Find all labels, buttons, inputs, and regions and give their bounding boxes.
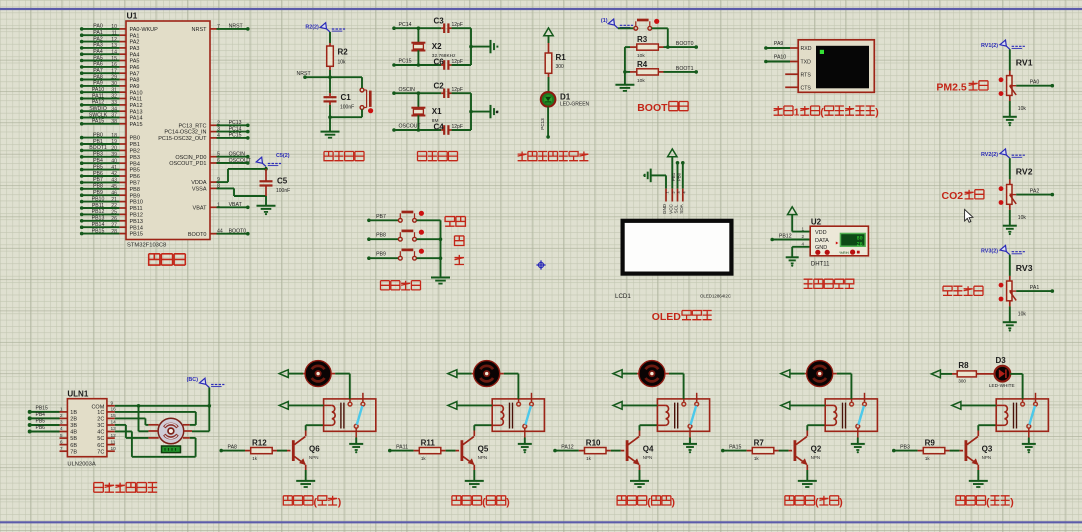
svg-text:PB1: PB1 bbox=[93, 139, 103, 145]
svg-text:PA1: PA1 bbox=[93, 30, 103, 36]
wire OSCOUT bbox=[392, 128, 396, 132]
wire PB4 to U1 pin 40 bbox=[80, 161, 84, 165]
svg-text:PC13: PC13 bbox=[540, 118, 545, 130]
svg-text:): ) bbox=[338, 496, 342, 508]
svg-text:OLED12864I2C: OLED12864I2C bbox=[700, 293, 731, 298]
svg-text:PA1: PA1 bbox=[130, 33, 140, 39]
svg-text:X1: X1 bbox=[432, 107, 442, 116]
svg-text:5C: 5C bbox=[97, 436, 104, 442]
wire R11 to base bbox=[446, 450, 456, 452]
sensor U2 DHT11 body bbox=[810, 226, 868, 256]
wire R8 to D3 bbox=[976, 373, 994, 375]
wire PA5 to U1 pin 15 bbox=[80, 59, 84, 63]
transistor Q5 (NPN) bbox=[461, 440, 464, 461]
svg-text:12pF: 12pF bbox=[452, 22, 463, 28]
svg-text:R4: R4 bbox=[637, 60, 648, 69]
svg-text:7: 7 bbox=[60, 446, 63, 452]
power flag C5(2) bbox=[263, 163, 267, 166]
svg-text:19: 19 bbox=[111, 139, 117, 145]
svg-text:DHT11: DHT11 bbox=[811, 261, 830, 267]
wire OLED SDA bbox=[681, 161, 685, 165]
svg-text:OSCOUT: OSCOUT bbox=[229, 158, 252, 164]
wire PB5 to ULN 3B bbox=[28, 423, 32, 427]
svg-text:12pF: 12pF bbox=[452, 87, 463, 93]
svg-text:PB12: PB12 bbox=[779, 233, 792, 239]
relay RL bbox=[996, 399, 1048, 431]
wire button bus bbox=[440, 220, 442, 277]
svg-text:1k: 1k bbox=[754, 456, 760, 461]
power arrow DHT bbox=[788, 207, 797, 215]
wire R9 to base bbox=[950, 450, 960, 452]
wire GND bbox=[792, 246, 810, 248]
wire PA8 to U1 pin 29 bbox=[80, 78, 84, 82]
svg-text:PA11: PA11 bbox=[92, 93, 104, 99]
svg-text:5: 5 bbox=[60, 433, 63, 439]
svg-text:PB3: PB3 bbox=[130, 155, 140, 161]
power arrow OLED VCC bbox=[668, 149, 677, 157]
wire PB7 to button bbox=[367, 219, 371, 223]
svg-text:R2: R2 bbox=[338, 48, 349, 57]
svg-text:PB0: PB0 bbox=[93, 132, 103, 138]
svg-text:26: 26 bbox=[111, 216, 117, 222]
relay RL bbox=[657, 399, 709, 431]
wire button PB9 to bus bbox=[416, 257, 440, 259]
wire PA9 to U1 pin 30 bbox=[80, 84, 84, 88]
svg-text:BOOT0: BOOT0 bbox=[676, 41, 694, 47]
svg-text:PB6: PB6 bbox=[36, 425, 46, 431]
wire PB11 to U1 pin 22 bbox=[80, 206, 84, 210]
wire RV2 wiper to PA2 bbox=[1016, 194, 1052, 196]
svg-text:10k: 10k bbox=[1018, 106, 1027, 112]
svg-text:NPN: NPN bbox=[309, 455, 319, 460]
svg-text:PA5: PA5 bbox=[130, 59, 140, 65]
svg-text:PB12: PB12 bbox=[92, 209, 105, 215]
svg-text:4: 4 bbox=[60, 426, 63, 432]
svg-text:PC15: PC15 bbox=[229, 133, 242, 139]
svg-text:RV1: RV1 bbox=[1016, 58, 1033, 68]
svg-text:PA9: PA9 bbox=[774, 41, 784, 47]
ground relay bbox=[683, 443, 697, 445]
ground crystal bbox=[490, 40, 492, 53]
capacitor C6 bbox=[443, 60, 445, 70]
node NRST bbox=[303, 75, 307, 79]
svg-text:300: 300 bbox=[958, 379, 966, 384]
svg-text:R1: R1 bbox=[556, 53, 567, 62]
wire motor to relay pole bbox=[665, 373, 669, 375]
svg-text:RV1(2): RV1(2) bbox=[981, 43, 998, 49]
button RESET bbox=[360, 88, 364, 92]
stepper motor bbox=[158, 418, 184, 444]
OLED pin 3 SCL bbox=[677, 189, 679, 202]
power arrow coil bbox=[613, 402, 622, 410]
svg-text:PA15: PA15 bbox=[729, 444, 741, 450]
label main-chip (主芯片) bbox=[149, 254, 160, 265]
svg-text:13: 13 bbox=[111, 43, 117, 49]
pin RTS stub bbox=[785, 73, 798, 75]
svg-text:PA12: PA12 bbox=[130, 103, 143, 109]
svg-text:12: 12 bbox=[111, 37, 117, 43]
resistor R4 bbox=[637, 69, 659, 75]
svg-text:4C: 4C bbox=[97, 430, 104, 436]
label relay (继电器(空调)) bbox=[283, 496, 292, 505]
svg-text:R3: R3 bbox=[637, 35, 648, 44]
svg-text:): ) bbox=[875, 107, 879, 119]
wire collector to coil bbox=[473, 431, 475, 437]
wire motor to relay pole bbox=[833, 373, 837, 375]
wire 2C to motor left-top bbox=[115, 417, 146, 419]
resistor R7 bbox=[752, 448, 774, 454]
potentiometer RV1 bbox=[1009, 71, 1011, 76]
wire VDDA to C5 node bbox=[217, 181, 229, 183]
svg-text:NRST: NRST bbox=[192, 27, 208, 33]
svg-text:PA4: PA4 bbox=[93, 49, 103, 55]
wire PB6 to U1 pin 42 bbox=[80, 174, 84, 178]
svg-text:40: 40 bbox=[111, 158, 117, 164]
power arrow coil bbox=[448, 402, 457, 410]
wire RV3 to ground bbox=[1009, 301, 1011, 307]
svg-text:3: 3 bbox=[60, 420, 63, 426]
svg-text:NPN: NPN bbox=[982, 455, 992, 460]
svg-text:PC13_RTC: PC13_RTC bbox=[178, 123, 206, 129]
svg-text:27: 27 bbox=[111, 222, 117, 228]
power arrow D3 branch bbox=[931, 370, 940, 378]
svg-text:PB11: PB11 bbox=[92, 203, 104, 209]
wire R4 left bbox=[625, 71, 630, 73]
svg-text:10: 10 bbox=[111, 24, 117, 30]
svg-text:PA14: PA14 bbox=[130, 116, 143, 122]
wire PB3 to U1 pin 39 bbox=[80, 155, 84, 159]
capacitor C5 bbox=[265, 169, 267, 181]
label serial-window (串口1窗口（模拟手机端）) bbox=[774, 106, 783, 115]
wire motor to relay pole bbox=[331, 373, 335, 375]
wire SWCLK to U1 pin 37 bbox=[80, 116, 84, 120]
svg-text:R8: R8 bbox=[958, 361, 969, 370]
power flag (BC) bbox=[206, 384, 210, 387]
driver ULN1 body bbox=[67, 399, 107, 457]
svg-text:PA12: PA12 bbox=[92, 100, 104, 106]
power flag RV2(2) bbox=[1006, 155, 1010, 158]
resistor R9 bbox=[923, 448, 945, 454]
resistor R10 bbox=[585, 448, 607, 454]
svg-text:VSSA: VSSA bbox=[192, 187, 207, 193]
svg-text:PA6: PA6 bbox=[130, 65, 140, 71]
power flag D1 bbox=[544, 28, 553, 36]
stray origin dot bbox=[496, 111, 499, 114]
svg-text:PA15: PA15 bbox=[130, 122, 143, 128]
ground Q3 bbox=[969, 480, 988, 482]
svg-text:PB15: PB15 bbox=[130, 232, 143, 238]
svg-text:C3: C3 bbox=[434, 17, 445, 26]
svg-text:6B: 6B bbox=[70, 443, 77, 449]
svg-text:PB7: PB7 bbox=[93, 177, 103, 183]
RV2 adjust dots bbox=[999, 186, 1004, 191]
svg-text:3C: 3C bbox=[97, 423, 104, 429]
svg-text:10k: 10k bbox=[637, 78, 645, 84]
svg-text:BOOT1: BOOT1 bbox=[676, 66, 694, 72]
svg-text:21: 21 bbox=[111, 197, 117, 203]
wire 1C to motor right-top bbox=[115, 411, 196, 413]
svg-text:12pF: 12pF bbox=[452, 124, 463, 130]
wire R7 to base bbox=[779, 450, 789, 452]
svg-text:GND: GND bbox=[662, 203, 667, 214]
power flag RV3(2) bbox=[1006, 252, 1010, 255]
svg-text:2C: 2C bbox=[97, 417, 104, 423]
svg-text:PA5: PA5 bbox=[93, 55, 103, 61]
resistor R2 bbox=[327, 46, 334, 66]
stepper display bbox=[162, 446, 181, 453]
svg-text:10k: 10k bbox=[1018, 215, 1027, 221]
wire R10 to base bbox=[611, 450, 621, 452]
svg-text:RV3(2): RV3(2) bbox=[981, 249, 998, 255]
wire PB12 to DATA bbox=[770, 238, 774, 242]
RV1 adjust dots bbox=[999, 77, 1004, 82]
svg-text:32: 32 bbox=[111, 94, 117, 100]
label 减 bbox=[455, 255, 465, 265]
wire D3 to relay pole bbox=[1010, 373, 1022, 375]
svg-text:7C: 7C bbox=[97, 449, 104, 455]
svg-text:33: 33 bbox=[111, 100, 117, 106]
crystal X1 bbox=[417, 93, 419, 108]
label crystal-circuit (晶振电路) bbox=[418, 152, 427, 161]
button PB7 bbox=[398, 218, 402, 222]
svg-text:PC14: PC14 bbox=[229, 126, 242, 132]
svg-text:PB7: PB7 bbox=[130, 181, 140, 187]
svg-text:PB10: PB10 bbox=[92, 196, 105, 202]
svg-text:VBAT: VBAT bbox=[193, 205, 208, 211]
virtual terminal body bbox=[798, 40, 874, 93]
svg-text:): ) bbox=[506, 496, 510, 508]
wire PA4 to U1 pin 14 bbox=[80, 52, 84, 56]
DHT buttons bbox=[815, 250, 820, 255]
svg-text:30: 30 bbox=[111, 81, 117, 87]
relay RL bbox=[324, 399, 376, 431]
svg-text:18: 18 bbox=[111, 133, 117, 139]
wire emitter to ground bbox=[806, 465, 808, 470]
svg-text:PA2: PA2 bbox=[93, 36, 103, 42]
wire button to R3 node bbox=[652, 27, 668, 29]
svg-text:(: ( bbox=[647, 496, 651, 508]
svg-text:PA11: PA11 bbox=[396, 444, 408, 450]
potentiometer RV2 bbox=[1009, 179, 1011, 184]
svg-text:PB10: PB10 bbox=[130, 200, 143, 206]
svg-text:D1: D1 bbox=[560, 92, 571, 101]
wire relay mover to ground bbox=[689, 438, 691, 444]
wire 3C to motor left-bottom bbox=[115, 424, 126, 426]
svg-text:PB15: PB15 bbox=[36, 406, 48, 412]
svg-text:C2: C2 bbox=[434, 82, 445, 91]
svg-text:6: 6 bbox=[60, 439, 63, 445]
svg-text:U2: U2 bbox=[811, 218, 822, 227]
wire PB15 to U1 pin 28 bbox=[80, 232, 84, 236]
ground RV2 bbox=[1003, 225, 1017, 227]
wire PA15 to U1 pin 38 bbox=[80, 122, 84, 126]
svg-text:PB3: PB3 bbox=[93, 152, 103, 158]
svg-text:PB0: PB0 bbox=[677, 172, 682, 181]
svg-text:1k: 1k bbox=[586, 456, 592, 461]
wire R4 to BOOT1 bbox=[664, 71, 697, 73]
svg-text:NRST: NRST bbox=[297, 71, 312, 77]
wire PB0 to U1 pin 18 bbox=[80, 136, 84, 140]
button PB9 bbox=[398, 256, 402, 260]
wire PA10 to U1 pin 31 bbox=[80, 90, 84, 94]
wire C2 to node bbox=[452, 92, 472, 94]
OLED display LCD1 bbox=[623, 221, 732, 274]
svg-text:34: 34 bbox=[111, 106, 117, 112]
transistor Q4 (NPN) bbox=[626, 440, 629, 461]
svg-text:10k: 10k bbox=[637, 53, 645, 59]
svg-text:15: 15 bbox=[111, 56, 117, 62]
wire PB9 to U1 pin 46 bbox=[80, 193, 84, 197]
wire PA10 to TXD bbox=[764, 60, 768, 64]
wire PB6 to ULN 4B bbox=[28, 430, 32, 434]
svg-text:NPN: NPN bbox=[478, 455, 488, 460]
wire PB8 to U1 pin 45 bbox=[80, 187, 84, 191]
svg-text:31: 31 bbox=[111, 87, 117, 93]
wire emitter to ground bbox=[639, 465, 641, 470]
svg-text:SWCLK: SWCLK bbox=[89, 112, 108, 118]
LED D3 (white) bbox=[995, 366, 1011, 382]
svg-text:OSCOUT_PD1: OSCOUT_PD1 bbox=[169, 161, 206, 167]
wire PA2 to U1 pin 12 bbox=[80, 40, 84, 44]
ground Q5 bbox=[465, 480, 484, 482]
relay RL bbox=[825, 399, 877, 431]
svg-text:NRST: NRST bbox=[229, 24, 244, 30]
button PB8 bbox=[398, 237, 402, 241]
svg-text:VDDA: VDDA bbox=[191, 180, 207, 186]
svg-text:1k: 1k bbox=[421, 456, 427, 461]
power arrow coil bbox=[952, 402, 961, 410]
svg-text:12: 12 bbox=[111, 433, 117, 439]
wire relay mover to ground bbox=[355, 438, 357, 444]
svg-text:PA12: PA12 bbox=[561, 444, 573, 450]
svg-text:4: 4 bbox=[801, 242, 804, 247]
wire collector to coil bbox=[806, 431, 808, 437]
svg-text:PA2: PA2 bbox=[130, 40, 140, 46]
svg-text:PA1: PA1 bbox=[1030, 285, 1040, 291]
svg-text:RTS: RTS bbox=[801, 72, 812, 78]
ground buttons bbox=[431, 277, 450, 279]
svg-text:1: 1 bbox=[794, 107, 800, 119]
ground C5 bbox=[257, 205, 276, 207]
power arrow motor bbox=[448, 370, 457, 378]
resistor R1 bbox=[545, 53, 552, 73]
transistor Q3 (NPN) bbox=[965, 440, 968, 461]
svg-text:Q6: Q6 bbox=[309, 445, 320, 454]
svg-text:PA7: PA7 bbox=[93, 68, 103, 74]
svg-text:1: 1 bbox=[801, 226, 804, 231]
svg-text:Q5: Q5 bbox=[478, 445, 489, 454]
crystal X2 bbox=[417, 28, 419, 43]
wire PA12 to U1 pin 33 bbox=[80, 103, 84, 107]
svg-text:45: 45 bbox=[111, 184, 117, 190]
svg-text:PB9: PB9 bbox=[130, 193, 140, 199]
ground Q2 bbox=[798, 480, 817, 482]
wire node to ground bbox=[471, 46, 491, 48]
svg-text:NPN: NPN bbox=[811, 455, 821, 460]
svg-text:2B: 2B bbox=[70, 417, 77, 423]
relay RL bbox=[492, 399, 544, 431]
svg-text:LED-GREEN: LED-GREEN bbox=[560, 102, 590, 108]
svg-text:PB13: PB13 bbox=[92, 216, 105, 222]
terminal cursor bbox=[820, 50, 824, 54]
svg-text:300: 300 bbox=[556, 64, 565, 70]
svg-text:(BC): (BC) bbox=[187, 377, 199, 383]
wire button PB8 to bus bbox=[416, 238, 440, 240]
ground Q4 bbox=[630, 480, 649, 482]
svg-text:C1: C1 bbox=[341, 93, 352, 102]
svg-text:BOOT: BOOT bbox=[637, 102, 668, 114]
svg-text:PA10: PA10 bbox=[92, 87, 104, 93]
svg-text:PA8: PA8 bbox=[228, 444, 238, 450]
svg-text:OSCIN: OSCIN bbox=[399, 87, 416, 93]
mouse cursor bbox=[965, 209, 973, 222]
svg-text:RXD: RXD bbox=[801, 46, 812, 52]
label 加 bbox=[455, 236, 465, 246]
svg-text:OSCIN_PD0: OSCIN_PD0 bbox=[175, 155, 206, 161]
svg-text:PC13: PC13 bbox=[229, 120, 242, 126]
wire RV1 to ground bbox=[1009, 95, 1011, 101]
svg-text:PB8: PB8 bbox=[93, 184, 103, 190]
wire R12 to base bbox=[277, 450, 287, 452]
ground OLED (rotated) bbox=[650, 169, 652, 183]
wire PC15 bbox=[392, 63, 396, 67]
svg-text:STM32F103C8: STM32F103C8 bbox=[127, 243, 166, 249]
svg-text:OSCIN: OSCIN bbox=[229, 152, 246, 158]
svg-text:RV3: RV3 bbox=[1016, 263, 1033, 273]
svg-text:25: 25 bbox=[111, 210, 117, 216]
svg-text:R7: R7 bbox=[754, 438, 765, 447]
svg-text:2: 2 bbox=[801, 234, 804, 239]
wire SWDIO to U1 pin 34 bbox=[80, 109, 84, 113]
ground relay bbox=[518, 443, 532, 445]
svg-text:PB5: PB5 bbox=[36, 419, 46, 425]
wire emitter to ground bbox=[473, 465, 475, 470]
svg-text:PB14: PB14 bbox=[92, 222, 105, 228]
svg-text:9: 9 bbox=[111, 401, 114, 407]
ground relay bbox=[349, 443, 363, 445]
resistor R8 bbox=[957, 371, 976, 377]
svg-text:PA0: PA0 bbox=[1030, 80, 1040, 86]
wire PB8 to button bbox=[367, 237, 371, 241]
wire PA1 to U1 pin 11 bbox=[80, 33, 84, 37]
wire PB4 to ULN 2B bbox=[28, 416, 32, 420]
svg-text:22: 22 bbox=[111, 203, 117, 209]
wire PA9 to RXD bbox=[764, 46, 768, 50]
svg-text:PB13: PB13 bbox=[130, 219, 143, 225]
svg-text:C5: C5 bbox=[277, 177, 288, 186]
wire PA11 to U1 pin 32 bbox=[80, 97, 84, 101]
wire PB12 to U1 pin 25 bbox=[80, 213, 84, 217]
svg-text:PB5: PB5 bbox=[130, 168, 140, 174]
wire PA11 to R11 bbox=[388, 449, 392, 453]
wire PB9 to button bbox=[367, 256, 371, 260]
svg-text:10k: 10k bbox=[338, 60, 347, 66]
wire RV3 wiper to PA1 bbox=[1016, 290, 1052, 292]
svg-text:ULN2003A: ULN2003A bbox=[67, 461, 95, 467]
power flag (1) bbox=[615, 25, 619, 28]
svg-text:PA7: PA7 bbox=[130, 71, 140, 77]
wire PB15 to ULN 1B bbox=[28, 410, 32, 414]
resistor R3 bbox=[637, 44, 659, 50]
svg-text:BOOT1: BOOT1 bbox=[89, 145, 107, 151]
OLED pin 1 GND bbox=[665, 189, 667, 202]
wire PA12 to R10 bbox=[553, 449, 557, 453]
wire C5 to ground bbox=[265, 196, 267, 206]
stepper pins bbox=[148, 430, 158, 432]
svg-text:PB4: PB4 bbox=[93, 158, 103, 164]
power arrow motor bbox=[781, 370, 790, 378]
wire COM bus bbox=[115, 405, 210, 407]
